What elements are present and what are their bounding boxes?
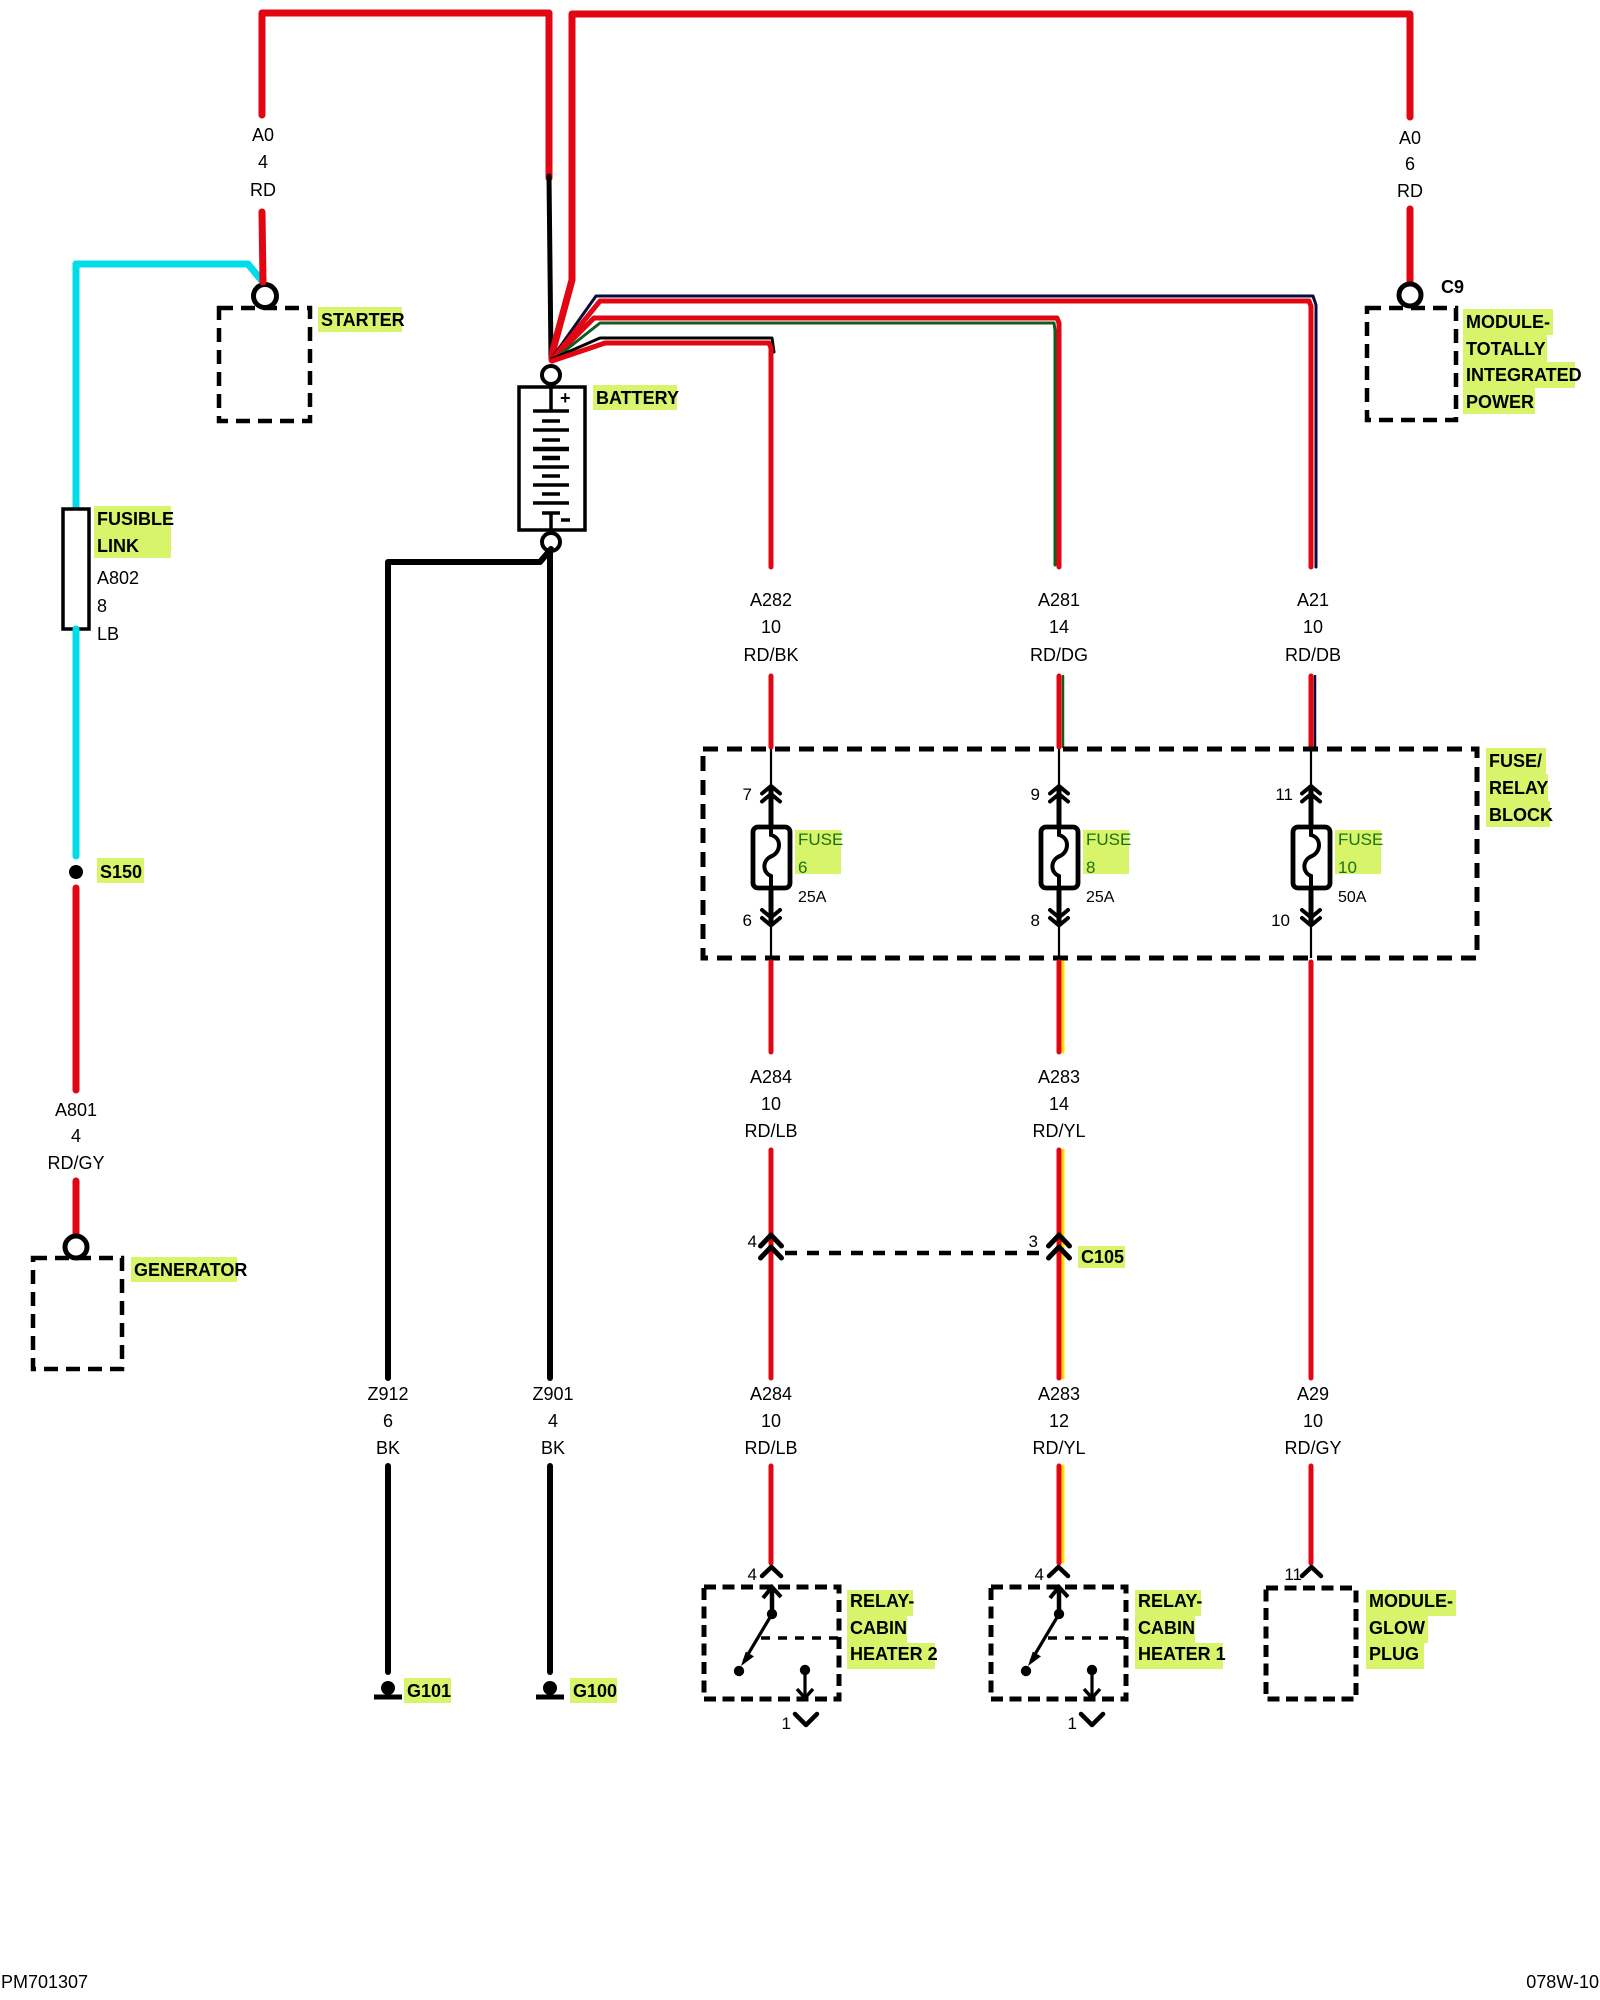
svg-text:14: 14 [1049, 1094, 1069, 1114]
svg-text:RELAY-: RELAY- [1138, 1591, 1202, 1611]
starter box (dashed) [219, 308, 310, 421]
svg-text:BLOCK: BLOCK [1489, 805, 1553, 825]
wire A29 lower (red) [1309, 1466, 1314, 1563]
svg-text:7: 7 [743, 785, 752, 804]
relay cabin heater 1 box (dashed) [991, 1587, 1126, 1699]
svg-text:FUSE: FUSE [1086, 830, 1131, 849]
svg-text:14: 14 [1049, 617, 1069, 637]
svg-text:A283: A283 [1038, 1384, 1080, 1404]
wire A0 TIPM top loop (red) [552, 14, 1410, 360]
label A0 4 RD [250, 125, 276, 200]
svg-text:4: 4 [1035, 1565, 1044, 1584]
relay 1 internals [1021, 1587, 1125, 1698]
wire A281 into fuse block (red + dark green tracer) [1059, 676, 1063, 747]
label MODULE-TOTALLY INTEGRATED POWER [1463, 309, 1582, 414]
svg-text:RELAY: RELAY [1489, 778, 1548, 798]
label FUSE 10 50A [1335, 830, 1383, 906]
svg-text:HEATER 2: HEATER 2 [850, 1644, 938, 1664]
svg-text:POWER: POWER [1466, 392, 1534, 412]
wire Z901 (black) [547, 550, 553, 1672]
svg-text:PM701307: PM701307 [1, 1972, 88, 1992]
svg-text:8: 8 [1086, 858, 1095, 877]
svg-text:10: 10 [1303, 617, 1323, 637]
relay 2 internals [734, 1587, 838, 1698]
svg-text:BATTERY: BATTERY [596, 388, 679, 408]
svg-text:BK: BK [541, 1438, 565, 1458]
wire A284 lower (red) [769, 1466, 774, 1563]
relay 1 pin 1 chevron [1081, 1714, 1103, 1725]
svg-text:RD/BK: RD/BK [743, 645, 798, 665]
relay cabin heater 2 box (dashed) [704, 1587, 839, 1699]
svg-text:FUSE/: FUSE/ [1489, 751, 1542, 771]
wire A281 feed tracer (dark green) [552, 323, 1055, 565]
svg-text:10: 10 [761, 1094, 781, 1114]
label GENERATOR [131, 1257, 247, 1282]
svg-text:1: 1 [1068, 1714, 1077, 1733]
svg-text:4: 4 [748, 1565, 757, 1584]
fuse/relay block box (dashed) [703, 749, 1477, 958]
svg-text:Z901: Z901 [532, 1384, 573, 1404]
svg-text:RD: RD [1397, 181, 1423, 201]
svg-text:3: 3 [1029, 1232, 1038, 1251]
wire battery positive stub (black) [549, 176, 551, 358]
svg-text:A284: A284 [750, 1067, 792, 1087]
svg-text:A801: A801 [55, 1100, 97, 1120]
svg-text:INTEGRATED: INTEGRATED [1466, 365, 1582, 385]
label MODULE-GLOW PLUG [1366, 1590, 1456, 1669]
svg-text:6: 6 [743, 911, 752, 930]
wire A29 below block (red) [1309, 962, 1314, 1378]
svg-text:C105: C105 [1081, 1247, 1124, 1267]
wire A282 feed (red) [552, 343, 771, 567]
svg-text:A802: A802 [97, 568, 139, 588]
wire A801 (red) [73, 888, 80, 1234]
C105 dashed connector line [785, 1251, 1045, 1256]
svg-text:HEATER 1: HEATER 1 [1138, 1644, 1226, 1664]
battery connector circle bottom [542, 533, 560, 551]
svg-text:RD: RD [250, 180, 276, 200]
label A283 12 RD/YL [1032, 1384, 1085, 1458]
svg-text:CABIN: CABIN [1138, 1618, 1195, 1638]
label FUSE/RELAY BLOCK [1486, 748, 1553, 827]
svg-text:RELAY-: RELAY- [850, 1591, 914, 1611]
svg-text:10: 10 [761, 617, 781, 637]
svg-text:C9: C9 [1441, 277, 1464, 297]
svg-text:12: 12 [1049, 1411, 1069, 1431]
svg-text:8: 8 [97, 596, 107, 616]
svg-text:A282: A282 [750, 590, 792, 610]
fuse F10 circuit [1293, 749, 1330, 958]
svg-text:A0: A0 [1399, 128, 1421, 148]
svg-text:FUSIBLE: FUSIBLE [97, 509, 174, 529]
svg-text:9: 9 [1031, 785, 1040, 804]
label A0 6 RD [1397, 128, 1423, 201]
label RELAY-CABIN HEATER 2 [847, 1590, 938, 1669]
connector C105 chevrons right (pin 3) [1049, 1235, 1070, 1258]
svg-text:A283: A283 [1038, 1067, 1080, 1087]
svg-text:4: 4 [548, 1411, 558, 1431]
battery B1 [519, 384, 585, 533]
wire A282 feed tracer (black) [552, 338, 774, 359]
splice S150 [69, 865, 83, 879]
label A284 10 RD/LB [744, 1067, 797, 1141]
svg-text:Z912: Z912 [367, 1384, 408, 1404]
starter connector circle [254, 285, 277, 308]
wire A284 below block (red) [769, 962, 774, 1378]
svg-text:GENERATOR: GENERATOR [134, 1260, 247, 1280]
svg-text:RD/YL: RD/YL [1032, 1121, 1085, 1141]
glow plug module pin 11 chevron [1302, 1567, 1321, 1576]
label A802 8 LB [97, 568, 139, 644]
label RELAY-CABIN HEATER 1 [1135, 1590, 1226, 1669]
TIPM box (dashed) [1367, 308, 1456, 420]
fusible link component [63, 509, 89, 629]
svg-text:G101: G101 [407, 1681, 451, 1701]
svg-text:A21: A21 [1297, 590, 1329, 610]
svg-text:LINK: LINK [97, 536, 139, 556]
svg-text:CABIN: CABIN [850, 1618, 907, 1638]
svg-text:FUSE: FUSE [798, 830, 843, 849]
label A281 14 RD/DG [1030, 590, 1088, 665]
wire to starter (cyan) [76, 264, 262, 508]
svg-text:A281: A281 [1038, 590, 1080, 610]
battery connector circle top [542, 366, 560, 384]
svg-text:6: 6 [383, 1411, 393, 1431]
svg-text:RD/LB: RD/LB [744, 1438, 797, 1458]
ground G101 [374, 1681, 402, 1697]
glow plug module box (dashed) [1266, 1588, 1356, 1699]
svg-text:FUSE: FUSE [1338, 830, 1383, 849]
svg-text:6: 6 [798, 858, 807, 877]
svg-text:G100: G100 [573, 1681, 617, 1701]
wire A21 feed pair (dark blue tracer) [552, 296, 1316, 567]
wire A21 feed (red) [552, 301, 1311, 567]
svg-text:MODULE-: MODULE- [1466, 312, 1550, 332]
C9 connector circle [1399, 284, 1421, 306]
svg-text:RD/YL: RD/YL [1032, 1438, 1085, 1458]
svg-text:LB: LB [97, 624, 119, 644]
svg-text:10: 10 [1338, 858, 1357, 877]
svg-text:1: 1 [782, 1714, 791, 1733]
connector C105 chevrons left (pin 4) [761, 1235, 782, 1258]
svg-text:BK: BK [376, 1438, 400, 1458]
svg-text:RD/DB: RD/DB [1285, 645, 1341, 665]
svg-text:TOTALLY: TOTALLY [1466, 339, 1546, 359]
wire fusible link to S150 (cyan) [73, 629, 80, 856]
relay 2 pin 1 chevron [795, 1714, 817, 1725]
wire Z912 (black) [388, 549, 551, 1672]
svg-text:50A: 50A [1338, 889, 1367, 906]
wire A283 below block (red + yellow tracer) [1059, 962, 1063, 1378]
relay cabin heater 2 pin 4 chevron [762, 1567, 781, 1576]
svg-text:25A: 25A [1086, 889, 1115, 906]
wire A0 starter top loop (red) [262, 13, 549, 178]
wire A0 into starter (red) [262, 212, 263, 282]
label A801 4 RD/GY [47, 1100, 104, 1173]
wire A283 lower (red + yellow tracer) [1059, 1466, 1063, 1563]
generator box (dashed) [33, 1258, 122, 1369]
svg-text:RD/GY: RD/GY [47, 1153, 104, 1173]
label A282 10 RD/BK [743, 590, 798, 665]
label G101 [404, 1678, 451, 1703]
svg-text:10: 10 [1303, 1411, 1323, 1431]
fuse F8 circuit [1041, 749, 1078, 958]
svg-text:GLOW: GLOW [1369, 1618, 1425, 1638]
label BATTERY [593, 385, 679, 410]
label C105 [1078, 1246, 1125, 1268]
svg-text:11: 11 [1275, 785, 1293, 804]
svg-text:RD/LB: RD/LB [744, 1121, 797, 1141]
label A21 10 RD/DB [1285, 590, 1341, 665]
svg-text:10: 10 [1271, 911, 1290, 930]
relay cabin heater 1 pin 4 chevron [1049, 1567, 1068, 1576]
svg-text:4: 4 [71, 1126, 81, 1146]
svg-text:RD/DG: RD/DG [1030, 645, 1088, 665]
label A284 10 RD/LB lower [744, 1384, 797, 1458]
wire A282 into fuse block (red) [769, 676, 774, 747]
label G100 [570, 1678, 617, 1703]
label A29 10 RD/GY [1284, 1384, 1341, 1458]
label A283 14 RD/YL [1032, 1067, 1085, 1141]
svg-text:RD/GY: RD/GY [1284, 1438, 1341, 1458]
wire A21 into fuse block (red + dark blue tracer) [1311, 676, 1315, 747]
label FUSIBLE LINK [94, 506, 174, 558]
svg-text:A0: A0 [252, 125, 274, 145]
wire A281 feed (red) [552, 318, 1059, 567]
svg-text:STARTER: STARTER [321, 310, 405, 330]
label Z912 6 BK [367, 1384, 408, 1458]
fuse F6 circuit [753, 749, 790, 958]
label Z901 4 BK [532, 1384, 573, 1458]
svg-text:+: + [560, 388, 571, 408]
label FUSE 8 25A [1083, 830, 1131, 906]
svg-text:4: 4 [258, 152, 268, 172]
generator connector circle [65, 1236, 87, 1258]
label STARTER [318, 307, 405, 332]
svg-text:25A: 25A [798, 889, 827, 906]
svg-text:PLUG: PLUG [1369, 1644, 1419, 1664]
svg-text:11: 11 [1284, 1565, 1302, 1584]
svg-text:8: 8 [1031, 911, 1040, 930]
svg-text:S150: S150 [100, 862, 142, 882]
svg-text:078W-10: 078W-10 [1526, 1972, 1599, 1992]
svg-text:A29: A29 [1297, 1384, 1329, 1404]
label S150 [97, 858, 144, 883]
svg-text:MODULE-: MODULE- [1369, 1591, 1453, 1611]
label FUSE 6 25A [795, 830, 843, 906]
svg-text:A284: A284 [750, 1384, 792, 1404]
ground G100 [536, 1681, 564, 1697]
svg-text:6: 6 [1405, 154, 1415, 174]
svg-text:10: 10 [761, 1411, 781, 1431]
svg-text:4: 4 [748, 1232, 757, 1251]
